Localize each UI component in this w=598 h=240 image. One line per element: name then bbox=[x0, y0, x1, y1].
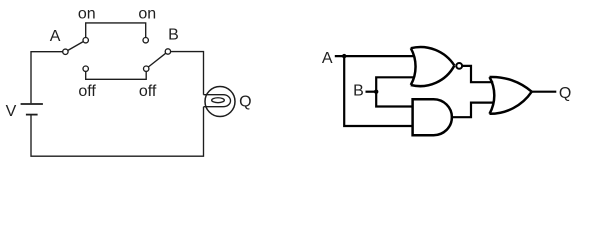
wire output Q bbox=[532, 91, 557, 93]
svg-text:Q: Q bbox=[559, 85, 571, 102]
junction node B bbox=[374, 90, 378, 94]
label off (switch B) bbox=[139, 83, 157, 100]
label Q (lamp) bbox=[239, 94, 251, 111]
label B (gate input) bbox=[353, 83, 364, 100]
switch A common terminal bbox=[63, 49, 68, 54]
svg-text:A: A bbox=[50, 28, 61, 45]
svg-text:off: off bbox=[78, 83, 96, 100]
wire NOR-to-OR bbox=[462, 66, 493, 82]
svg-text:on: on bbox=[78, 6, 96, 23]
OR gate bbox=[490, 77, 532, 114]
wire battery-to-bottom bbox=[31, 107, 204, 157]
svg-text:off: off bbox=[139, 83, 157, 100]
wire on-to-on bbox=[86, 23, 146, 38]
wire battery-to-switch-A bbox=[31, 52, 63, 104]
label V (battery) bbox=[6, 103, 17, 120]
label on (switch A) bbox=[78, 6, 96, 23]
wire input B bbox=[366, 91, 377, 93]
label B (switch B) bbox=[168, 27, 179, 44]
junction node A bbox=[342, 54, 346, 58]
label Q (gate output) bbox=[559, 85, 571, 102]
wire input A bbox=[335, 55, 415, 57]
NOR gate bbox=[411, 47, 462, 86]
battery V bbox=[21, 104, 43, 115]
switch A lever bbox=[68, 42, 84, 51]
svg-text:Q: Q bbox=[239, 94, 251, 111]
label A (switch A) bbox=[50, 28, 61, 45]
wire AND-to-OR bbox=[451, 103, 494, 118]
svg-text:B: B bbox=[168, 27, 179, 44]
svg-text:B: B bbox=[353, 83, 364, 100]
AND gate bbox=[413, 99, 452, 135]
wire A-branch to AND bbox=[344, 56, 412, 126]
label off (switch A) bbox=[78, 83, 96, 100]
switch A on contact bbox=[83, 38, 88, 43]
wire B-branch to AND bbox=[376, 92, 412, 107]
wire switch-B-to-lamp bbox=[171, 52, 204, 95]
label on (switch B) bbox=[138, 6, 156, 23]
switch B off contact bbox=[144, 66, 149, 71]
svg-text:A: A bbox=[322, 50, 333, 67]
label A (gate input) bbox=[322, 50, 333, 67]
lamp Q bbox=[204, 87, 236, 117]
wire off-to-off bbox=[86, 71, 147, 79]
switch A off contact bbox=[83, 66, 88, 71]
wire B-branch to NOR bbox=[376, 77, 414, 91]
svg-text:V: V bbox=[6, 103, 17, 120]
switch B lever bbox=[148, 53, 166, 67]
svg-text:on: on bbox=[138, 6, 156, 23]
switch B on contact bbox=[143, 38, 148, 43]
switch B common terminal bbox=[165, 49, 170, 54]
